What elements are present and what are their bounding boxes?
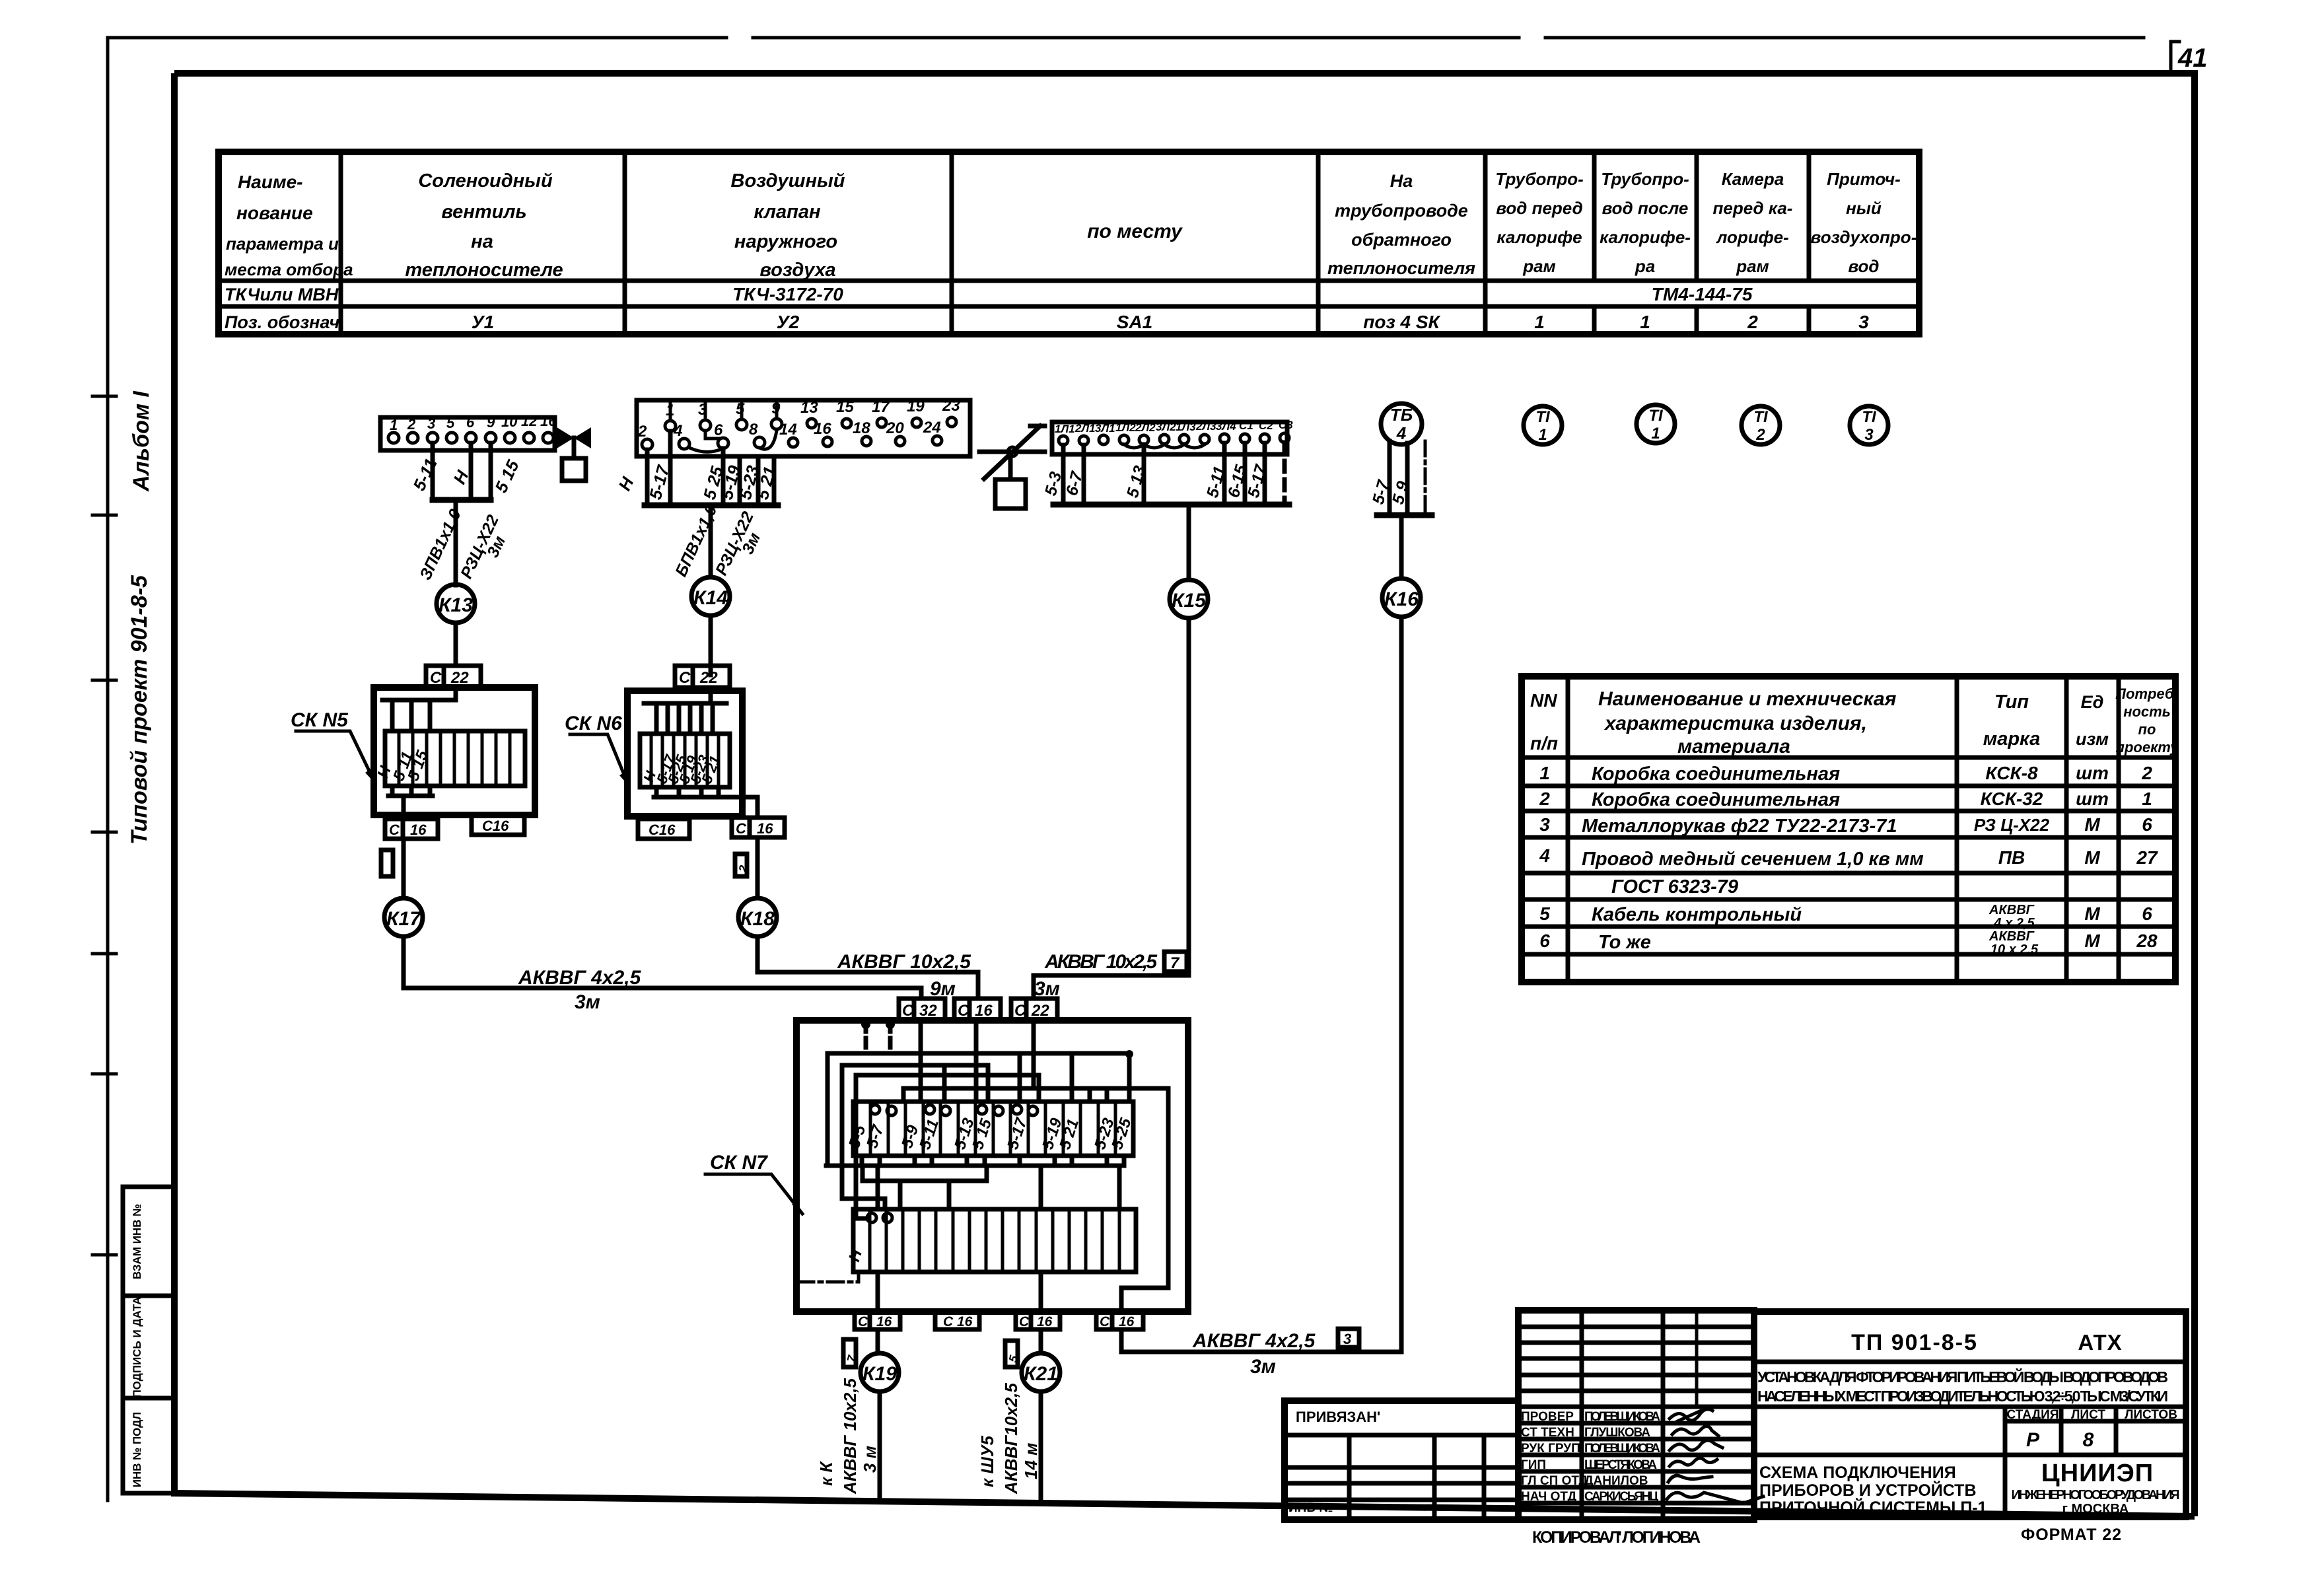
svg-text:22: 22: [699, 669, 718, 687]
terminal strip XT3: [1052, 419, 1293, 454]
svg-text:ПОЛЕВЩИКОВА: ПОЛЕВЩИКОВА: [1584, 1410, 1660, 1424]
dashed feed wire b: [888, 1022, 893, 1053]
svg-text:Коробка соединительная: Коробка соединительная: [1592, 789, 1840, 810]
svg-text:5: 5: [1539, 903, 1550, 924]
cable run K15 to SK7 C22: [1034, 618, 1189, 999]
svg-text:рам: рам: [1736, 256, 1769, 276]
wire 5-25 from XT2: [721, 448, 726, 505]
svg-text:2Л1: 2Л1: [1074, 422, 1096, 435]
column header: supply duct: [1811, 169, 1917, 276]
svg-text:ПОДПИСЬ И ДАТА: ПОДПИСЬ И ДАТА: [131, 1296, 143, 1397]
svg-text:3Л1: 3Л1: [1095, 422, 1115, 435]
svg-text:ТП 901-8-5: ТП 901-8-5: [1851, 1330, 1978, 1355]
svg-text:Поз. обознач: Поз. обознач: [225, 312, 339, 332]
thermometer TI1b: [1637, 405, 1675, 443]
svg-text:10 х 2,5: 10 х 2,5: [1990, 942, 2039, 957]
svg-text:воздуха: воздуха: [759, 260, 835, 281]
svg-text:ПРИБОРОВ И УСТРОЙСТВ: ПРИБОРОВ И УСТРОЙСТВ: [1759, 1480, 1977, 1500]
thermometer TI1: [1524, 406, 1562, 444]
main drawing frame: [174, 73, 2195, 1516]
svg-text:6: 6: [2142, 903, 2152, 924]
terminal strip SK7 lower: [845, 1209, 1136, 1272]
connector C16 bottom3 on SK7: [1016, 1312, 1060, 1329]
parts table header: [1530, 686, 2179, 757]
internal bus D: [903, 1086, 1168, 1091]
feed wire from C32: [919, 1020, 923, 1102]
internal bus G: [863, 1179, 987, 1183]
svg-text:Провод медный сечением 1,0 кв: Провод медный сечением 1,0 кв мм: [1582, 849, 1924, 870]
svg-text:ДАНИЛОВ: ДАНИЛОВ: [1584, 1474, 1648, 1488]
damper symbol U2: [979, 426, 1045, 509]
svg-text:С16: С16: [482, 818, 509, 834]
svg-text:ГОСТ 6323-79: ГОСТ 6323-79: [1611, 876, 1738, 898]
connector C16 bottom1 on SK7: [855, 1312, 900, 1329]
svg-text:ТΙ: ТΙ: [1862, 408, 1877, 426]
row: device type: [225, 284, 1753, 304]
svg-text:УСТАНОВКА ДЛЯ ФТОРИРОВАНИЯ ПИТ: УСТАНОВКА ДЛЯ ФТОРИРОВАНИЯ ПИТЬЕВОЙ ВОДЫ…: [1757, 1368, 2168, 1386]
svg-text:8: 8: [749, 421, 758, 439]
svg-text:1: 1: [390, 417, 398, 433]
svg-text:ный: ный: [1846, 198, 1882, 218]
wire 5-17 from XT2: [668, 431, 673, 505]
junction K17: [384, 898, 423, 936]
svg-text:ТКЧили МВН: ТКЧили МВН: [225, 285, 339, 304]
connector C16 bottom4 on SK7: [1096, 1312, 1143, 1329]
junction K18: [738, 898, 777, 936]
svg-text:ПРОВЕР: ПРОВЕР: [1521, 1410, 1574, 1424]
svg-text:16: 16: [975, 1002, 993, 1020]
wire 5-21 from XT2: [772, 456, 777, 505]
svg-text:АКВВГ: АКВВГ: [1989, 929, 2035, 944]
junction K13: [437, 584, 475, 623]
svg-text:6: 6: [1539, 931, 1550, 951]
svg-text:параметра и: параметра и: [226, 234, 339, 254]
svg-text:Наиме-: Наиме-: [238, 172, 303, 192]
cable run K16 down: [1121, 617, 1401, 1352]
svg-text:Тип: Тип: [1994, 691, 2029, 713]
outer sheet border top: [108, 36, 2144, 40]
outgoing label k ShU5 AKVVG 10x2.5 14m: [977, 1383, 1041, 1495]
svg-text:2Л2: 2Л2: [1135, 421, 1156, 434]
svg-text:ПОЛЕВЩИКОВА: ПОЛЕВЩИКОВА: [1584, 1442, 1660, 1456]
svg-text:3м: 3м: [1250, 1356, 1276, 1378]
svg-text:Коробка соединительная: Коробка соединительная: [1592, 763, 1840, 785]
junction K19: [861, 1353, 899, 1391]
svg-text:к К: к К: [816, 1461, 836, 1486]
svg-text:М: М: [2084, 903, 2100, 924]
bus drops to strip: [827, 1053, 1168, 1288]
leader label SK N7: [705, 1152, 802, 1214]
wire to K15: [1187, 505, 1191, 579]
svg-text:10: 10: [501, 413, 518, 430]
svg-text:ВЗАМ ИНВ №: ВЗАМ ИНВ №: [131, 1204, 143, 1279]
cable marker 3: [1338, 1329, 1359, 1347]
svg-text:М: М: [2084, 814, 2100, 835]
wire to K14: [709, 505, 713, 575]
svg-text:С: С: [1019, 1314, 1030, 1329]
svg-text:4 х 2,5: 4 х 2,5: [1993, 916, 2035, 931]
svg-text:С1: С1: [1239, 419, 1253, 432]
svg-text:С: С: [902, 1002, 914, 1020]
cable marker on K17 wire: [381, 850, 393, 876]
svg-text:марка: марка: [1983, 728, 2040, 750]
wire 5-7 from TB4: [1388, 441, 1392, 515]
wire 5-15 from XT1: [489, 443, 493, 500]
svg-text:16: 16: [757, 820, 773, 837]
svg-text:К13: К13: [439, 594, 473, 616]
column header: pipe before heater: [1495, 169, 1584, 276]
svg-text:КОПИРОВАЛ' ЛОГИНОВА: КОПИРОВАЛ' ЛОГИНОВА: [1532, 1528, 1701, 1547]
svg-text:наружного: наружного: [734, 231, 837, 252]
cable run K18 to SK7 C16: [757, 936, 978, 999]
svg-text:М: М: [2084, 847, 2100, 868]
dash-dot spare from TB4: [1424, 441, 1427, 512]
svg-text:17: 17: [872, 398, 890, 416]
terminal strip XT1 (solenoid valve U1): [380, 413, 557, 450]
signature rows: [1521, 1410, 1660, 1504]
svg-text:3м: 3м: [575, 991, 600, 1013]
svg-text:У1: У1: [472, 312, 495, 332]
wire 6-7 from XT3: [1082, 445, 1086, 505]
svg-text:8: 8: [2083, 1429, 2094, 1451]
svg-text:АКВВГ 4х2,5: АКВВГ 4х2,5: [1192, 1330, 1316, 1352]
svg-text:С: С: [1100, 1314, 1110, 1329]
wire C16 to K18: [756, 837, 760, 898]
svg-text:ра: ра: [1635, 256, 1655, 276]
junction box SK6: [627, 687, 757, 818]
top parameters table: [219, 152, 1919, 334]
terminal strip XT2 (air valve U2): [637, 397, 970, 456]
svg-text:НАЧ ОТД: НАЧ ОТД: [1521, 1490, 1577, 1504]
svg-text:2: 2: [2141, 763, 2152, 783]
svg-text:ТΙ: ТΙ: [1753, 408, 1769, 426]
svg-text:НАСЕЛЕННЫХ МЕСТ ПРОИЗВОДИТЕЛЬН: НАСЕЛЕННЫХ МЕСТ ПРОИЗВОДИТЕЛЬНОСТЬЮ 3,2÷…: [1757, 1388, 2168, 1405]
connector C32 on SK7: [899, 999, 945, 1020]
svg-text:1: 1: [2142, 789, 2152, 809]
svg-text:ЛИСТ: ЛИСТ: [2071, 1408, 2105, 1422]
internal bus C: [856, 1073, 1039, 1078]
svg-text:ЛИСТОВ: ЛИСТОВ: [2125, 1408, 2177, 1422]
svg-text:СК N5: СК N5: [291, 709, 349, 731]
svg-text:теплоносителя: теплоносителя: [1327, 258, 1475, 278]
svg-text:К19: К19: [863, 1363, 897, 1385]
svg-text:АКВВГ 10х2,5: АКВВГ 10х2,5: [837, 951, 971, 973]
svg-text:ПВ: ПВ: [1998, 847, 2025, 868]
svg-text:ПРИТОЧНОЙ СИСТЕМЫ П-1: ПРИТОЧНОЙ СИСТЕМЫ П-1: [1759, 1497, 1987, 1517]
wire K14 to SK6: [709, 616, 713, 675]
svg-text:С: С: [958, 1002, 969, 1020]
column header: solenoid valve: [405, 170, 563, 281]
svg-text:1: 1: [1534, 312, 1545, 332]
title block right part: [1754, 1312, 2186, 1517]
svg-text:воздухопро-: воздухопро-: [1811, 227, 1917, 247]
parts row 4: [1539, 845, 2158, 870]
fold tick marks on left border: [92, 396, 116, 1255]
row: position designation: [225, 312, 1869, 332]
svg-text:КСК-32: КСК-32: [1981, 789, 2043, 809]
svg-text:Типовой проект 901-8-5: Типовой проект 901-8-5: [127, 575, 152, 845]
sensor TB4: [1381, 404, 1422, 444]
column header: chamber before heater: [1713, 169, 1793, 276]
svg-text:ЦНИИЭП: ЦНИИЭП: [2041, 1460, 2154, 1487]
bus A terminal dot: [1125, 1050, 1133, 1058]
svg-text:АТХ: АТХ: [2078, 1330, 2122, 1355]
svg-text:лорифе-: лорифе-: [1715, 227, 1789, 247]
wire K13 to SK5: [454, 623, 458, 666]
cable marker on K21 wire: [1005, 1341, 1021, 1367]
svg-text:2: 2: [1747, 312, 1758, 332]
svg-text:С: С: [430, 669, 442, 687]
junction box SK7: [796, 1020, 1188, 1312]
wire C16 to K17: [402, 839, 406, 898]
svg-text:Потреб-: Потреб-: [2115, 686, 2179, 702]
internal bus F: [826, 1164, 1122, 1168]
svg-text:3: 3: [1864, 426, 1874, 444]
svg-text:Наименование и техническая: Наименование и техническая: [1598, 688, 1897, 710]
strip labels SK7 upper: [845, 1115, 1135, 1152]
svg-text:АКВВГ10х2,5: АКВВГ10х2,5: [1001, 1383, 1021, 1495]
cable bundle bracket TB4: [1377, 512, 1432, 518]
svg-text:15: 15: [836, 398, 854, 416]
svg-text:7: 7: [1170, 954, 1180, 972]
left link wires: [842, 1199, 885, 1209]
svg-text:1: 1: [1651, 425, 1660, 442]
junction K16: [1382, 579, 1421, 617]
svg-text:РЗ Ц-Х22: РЗ Ц-Х22: [1974, 815, 2050, 835]
wire 5-9 from TB4: [1405, 443, 1410, 515]
valve symbol U1: [557, 427, 591, 481]
svg-text:С: С: [679, 669, 691, 687]
column header: air valve: [731, 170, 845, 281]
svg-text:12: 12: [521, 413, 538, 429]
svg-text:ТΙ: ТΙ: [1535, 408, 1551, 426]
svg-text:Металлорукав ф22 ТУ22-2173-71: Металлорукав ф22 ТУ22-2173-71: [1582, 816, 1897, 837]
svg-text:Р: Р: [2026, 1429, 2040, 1451]
svg-text:ПРИВЯЗАН': ПРИВЯЗАН': [1296, 1409, 1380, 1425]
svg-text:ТΙ: ТΙ: [1648, 407, 1664, 425]
bottom right jog to connector 4: [1121, 1288, 1168, 1312]
svg-text:С16: С16: [649, 822, 676, 838]
svg-text:К15: К15: [1172, 590, 1207, 612]
svg-text:СТАДИЯ: СТАДИЯ: [2007, 1408, 2059, 1422]
svg-text:С2: С2: [1259, 419, 1273, 432]
svg-text:22: 22: [1031, 1002, 1049, 1020]
connector C22 on SK5: [426, 666, 481, 687]
svg-text:1Л2: 1Л2: [1115, 421, 1136, 434]
internal bus A: [827, 1051, 1129, 1056]
svg-text:теплоносителе: теплоносителе: [405, 260, 563, 281]
leader label SK N6: [565, 713, 629, 786]
svg-text:3Л2: 3Л2: [1156, 421, 1176, 433]
svg-text:К21: К21: [1024, 1363, 1058, 1385]
wire to K16: [1399, 515, 1404, 578]
svg-text:2Л3: 2Л3: [1195, 420, 1216, 433]
svg-text:32: 32: [919, 1002, 937, 1020]
svg-text:С: С: [858, 1314, 868, 1329]
svg-text:9: 9: [487, 414, 495, 431]
svg-text:АКВВГ: АКВВГ: [1989, 903, 2035, 917]
svg-text:14: 14: [779, 421, 797, 439]
svg-text:шт: шт: [2076, 789, 2109, 809]
svg-text:20: 20: [886, 419, 904, 437]
svg-text:3 м: 3 м: [860, 1446, 880, 1473]
connector C22 on SK7: [1011, 999, 1057, 1020]
svg-text:Приточ-: Приточ-: [1827, 169, 1901, 189]
svg-text:ТКЧ-3172-70: ТКЧ-3172-70: [732, 284, 843, 304]
svg-text:ШЕРСТЯКОВА: ШЕРСТЯКОВА: [1584, 1458, 1657, 1472]
svg-text:вод после: вод после: [1602, 198, 1689, 218]
terminal strip SK7 upper: [853, 1102, 1133, 1156]
svg-text:материала: материала: [1677, 736, 1790, 757]
svg-text:Воздушный: Воздушный: [731, 170, 845, 192]
wire to K21: [1039, 1329, 1043, 1353]
svg-text:калорифе-: калорифе-: [1600, 227, 1691, 247]
junction box SK5: [374, 687, 535, 819]
svg-text:ИНВ №: ИНВ №: [1288, 1501, 1333, 1515]
junction K15: [1170, 580, 1208, 618]
parts row 5: [1539, 903, 2152, 931]
wire 5-23 from XT2: [756, 456, 761, 505]
svg-text:ТМ4-144-75: ТМ4-144-75: [1652, 284, 1753, 304]
organization: [2012, 1460, 2180, 1516]
svg-text:РУК ГРУП: РУК ГРУП: [1521, 1442, 1580, 1456]
svg-text:обратного: обратного: [1351, 230, 1452, 250]
svg-text:ИНВ № ПОДЛ: ИНВ № ПОДЛ: [131, 1412, 143, 1487]
svg-text:изм: изм: [2076, 729, 2109, 749]
svg-text:16: 16: [1119, 1314, 1135, 1329]
wire 5-3 from XT3: [1061, 445, 1066, 505]
svg-text:23: 23: [942, 397, 960, 415]
bus F drops to lower strip: [878, 1166, 1119, 1209]
connector C16 bottom2 on SK7: [935, 1312, 979, 1329]
wire to K13: [454, 500, 458, 585]
wire N from XT1: [469, 443, 474, 500]
outgoing label k K AKVVG 10x2.5 3m: [816, 1378, 880, 1495]
dashed spare wire XT3: [1283, 442, 1287, 502]
svg-text:нование: нование: [236, 203, 313, 223]
svg-text:13: 13: [800, 399, 818, 417]
svg-text:С 16: С 16: [943, 1314, 973, 1329]
svg-text:16: 16: [410, 822, 427, 838]
svg-text:АКВВГ 4х2,5: АКВВГ 4х2,5: [518, 967, 642, 989]
svg-text:3: 3: [1858, 312, 1869, 332]
thermometer TI3: [1850, 406, 1888, 444]
svg-text:Трубопро-: Трубопро-: [1601, 169, 1689, 189]
wire 5-13 from XT3: [1142, 444, 1146, 505]
svg-text:ность: ность: [2123, 703, 2171, 720]
wire 5-17 from XT3: [1263, 443, 1267, 505]
svg-text:3Л4: 3Л4: [1216, 420, 1236, 433]
connector C16 left on SK6: [638, 819, 689, 839]
svg-text:14 м: 14 м: [1021, 1443, 1041, 1479]
connector C16 right on SK5: [472, 815, 524, 835]
svg-text:КСК-8: КСК-8: [1985, 763, 2038, 783]
svg-text:4: 4: [1539, 845, 1550, 866]
svg-text:АКВВГ 10х2,5: АКВВГ 10х2,5: [840, 1378, 860, 1495]
svg-text:1: 1: [1538, 426, 1547, 444]
svg-text:1: 1: [1539, 763, 1550, 783]
parts row 3: [1539, 814, 2152, 837]
leader label SK N5: [291, 709, 375, 783]
dashed feed wire a: [864, 1022, 868, 1053]
svg-text:На: На: [1390, 171, 1413, 191]
column header: pipe after heater: [1600, 169, 1691, 276]
svg-text:к ШУ5: к ШУ5: [977, 1436, 997, 1487]
left stamp table: [123, 1187, 174, 1493]
svg-text:Ед: Ед: [2081, 692, 2104, 712]
title block signature grid: [1518, 1310, 1754, 1520]
svg-text:поз 4 SК: поз 4 SК: [1363, 312, 1440, 332]
column header: return pipe: [1327, 171, 1475, 278]
svg-text:SА1: SА1: [1117, 312, 1152, 332]
cable bundle bracket XT3: [1053, 502, 1289, 508]
svg-text:24: 24: [923, 419, 941, 437]
svg-text:41: 41: [2177, 44, 2208, 73]
parts row 2: [1539, 789, 2152, 810]
wire to K19: [876, 1329, 880, 1353]
svg-text:С: С: [736, 820, 747, 837]
parts row 1: [1539, 763, 2152, 785]
svg-text:1: 1: [1640, 312, 1650, 332]
connector C16 top on SK7: [954, 999, 1001, 1020]
svg-text:характеристика изделия,: характеристика изделия,: [1603, 713, 1867, 734]
svg-text:К14: К14: [693, 587, 728, 609]
thermometer TI2: [1742, 406, 1780, 444]
svg-text:рам: рам: [1522, 256, 1556, 276]
svg-text:3: 3: [427, 415, 435, 432]
svg-text:Соленоидный: Соленоидный: [418, 170, 553, 192]
svg-text:по: по: [2138, 721, 2156, 738]
connector C22 on SK6: [675, 666, 730, 687]
junction K14: [691, 577, 730, 616]
svg-text:клапан: клапан: [754, 201, 821, 223]
svg-text:22: 22: [450, 669, 469, 687]
svg-text:проекту: проекту: [2116, 739, 2180, 756]
feed wire from C16: [974, 1020, 979, 1102]
svg-text:4: 4: [1396, 423, 1407, 443]
svg-text:4: 4: [673, 422, 682, 440]
svg-text:У2: У2: [777, 312, 800, 332]
junction K21: [1022, 1353, 1060, 1391]
wire 5-19 from XT2: [738, 456, 742, 505]
svg-text:К16: К16: [1384, 588, 1419, 610]
svg-text:С: С: [389, 822, 400, 838]
svg-text:2: 2: [407, 416, 416, 433]
svg-text:М: М: [2084, 931, 2100, 951]
svg-text:по месту: по месту: [1087, 221, 1183, 242]
svg-text:калорифе: калорифе: [1497, 227, 1582, 247]
svg-text:С3: С3: [1279, 419, 1293, 431]
svg-text:То же: То же: [1598, 932, 1651, 953]
svg-text:27: 27: [2136, 847, 2158, 868]
svg-text:СК N7: СК N7: [710, 1152, 768, 1174]
svg-text:1Л3: 1Л3: [1176, 421, 1196, 433]
outgoing wire from K19: [878, 1391, 882, 1501]
svg-text:места отбора: места отбора: [225, 260, 353, 279]
svg-text:28: 28: [2136, 931, 2158, 951]
svg-text:Камера: Камера: [1722, 169, 1784, 189]
object name: [1757, 1368, 2168, 1405]
cable marker 7: [1164, 952, 1187, 972]
svg-text:18: 18: [853, 419, 870, 437]
parts row 6: [1539, 929, 2158, 957]
svg-text:ГЛУШКОВА: ГЛУШКОВА: [1584, 1426, 1650, 1440]
svg-text:Альбом I: Альбом I: [129, 390, 154, 492]
stage sheet header: [2007, 1408, 2177, 1451]
svg-text:трубопроводе: трубопроводе: [1335, 201, 1468, 221]
outer sheet border left: [106, 38, 110, 1500]
svg-text:2: 2: [1539, 789, 1550, 809]
